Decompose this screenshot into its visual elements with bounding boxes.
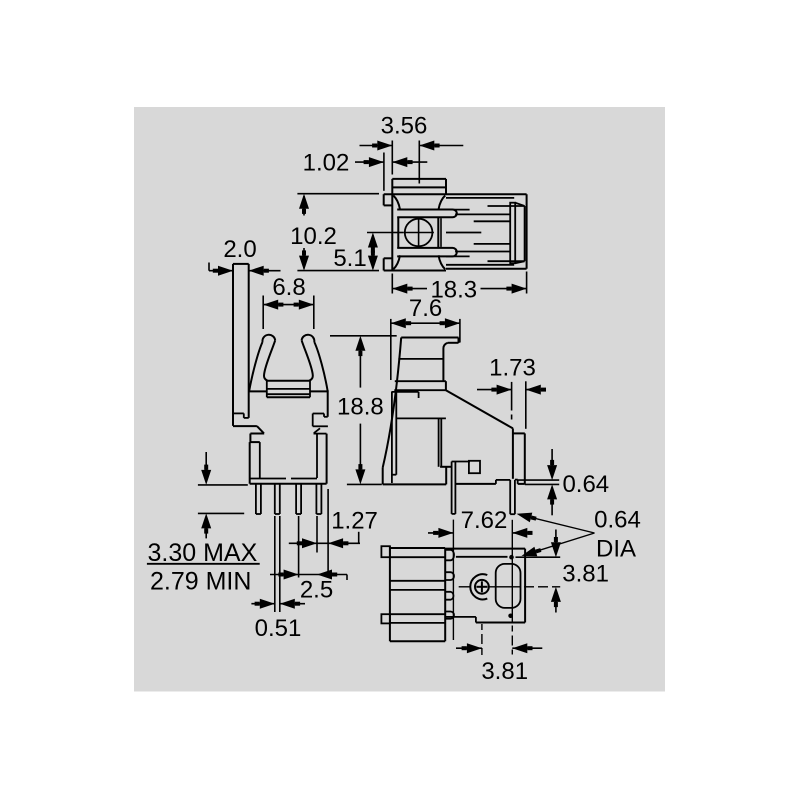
svg-text:1.27: 1.27 (331, 507, 378, 534)
dim 5.1 reference line (367, 232, 394, 234)
dim 7.6 line and arrows (391, 322, 460, 324)
svg-text:3.30 MAX: 3.30 MAX (148, 539, 258, 567)
svg-text:5.1: 5.1 (333, 245, 366, 272)
svg-text:2.79 MIN: 2.79 MIN (150, 567, 251, 595)
dim 7.62 line and arrows (428, 532, 453, 534)
gray panel background (134, 107, 665, 692)
dim 5.1 arrows (372, 235, 374, 250)
top view: clip body left block (392, 178, 446, 180)
top view: retaining strap upper (397, 209, 452, 211)
dim 3.56 line and arrows (360, 145, 393, 147)
extension lines for 1.27 and 2.5 (298, 516, 300, 578)
svg-text:2.0: 2.0 (223, 236, 256, 263)
dim 2.5 line and arrows (270, 574, 347, 576)
svg-text:10.2: 10.2 (290, 223, 337, 250)
dim 3.56 extension lines (391, 141, 393, 175)
bottom view: right body (445, 548, 525, 550)
front view: right foot (313, 413, 324, 415)
svg-text:2.5: 2.5 (300, 577, 333, 604)
svg-text:18.8: 18.8 (337, 394, 384, 421)
front view: bottom lines (250, 478, 286, 480)
side view: sloped top right (446, 390, 513, 428)
front view: left finger (249, 342, 262, 391)
svg-text:0.64: 0.64 (594, 507, 641, 534)
bottom view: left tabs (381, 546, 390, 557)
dim 10.2 arrows (303, 196, 305, 216)
bottom view: screw head (475, 580, 489, 594)
dim 10.2 reference lines (297, 193, 379, 195)
dim 1.73 extension lines (511, 382, 513, 411)
dim 2.0 line and arrows (208, 263, 210, 271)
svg-text:1.73: 1.73 (489, 355, 536, 382)
svg-text:3.81: 3.81 (562, 561, 609, 588)
dim 6.8 line and arrows (263, 304, 314, 306)
front view: legs (255, 484, 257, 514)
dim 3.30/2.79 arrows (205, 452, 207, 473)
top view: right body interior lines (446, 197, 514, 199)
top view: retaining strap lower (397, 247, 452, 249)
front view: right finger (314, 342, 327, 391)
bottom view: leg hole dots (509, 555, 514, 560)
top view: square pocket around hole (397, 217, 399, 248)
svg-text:3.56: 3.56 (381, 113, 428, 140)
bottom view: center lines (452, 520, 454, 640)
front view: left leaf (232, 264, 234, 426)
top view: left mount tab upper (383, 194, 385, 205)
top view: end cap (510, 203, 515, 264)
front view: body ledges (249, 390, 267, 392)
dim 7.6 extension lines (390, 319, 392, 380)
svg-text:7.62: 7.62 (461, 507, 508, 534)
side view: leg 1 (451, 462, 453, 514)
dim 18.3 line and arrows (392, 288, 427, 290)
front view: body right wall (327, 390, 329, 416)
bottom view: left column lines (390, 556, 445, 558)
svg-text:6.8: 6.8 (272, 274, 305, 301)
top view: right body outline (526, 194, 528, 269)
dim 1.73 line and arrows (477, 389, 512, 391)
dim 3.81 right arrows (555, 530, 557, 552)
svg-text:DIA: DIA (596, 535, 636, 562)
dim 18.8 arrows (359, 339, 361, 388)
svg-text:7.6: 7.6 (409, 295, 442, 322)
side view: interior line (396, 417, 446, 419)
fraction bar (147, 563, 260, 565)
bottom view: screw boss arc (470, 574, 487, 599)
top view: hole crosshair (403, 232, 434, 234)
front view: saddle band (267, 380, 310, 382)
dim 6.8 extension lines (262, 296, 264, 330)
dim 3.81 right reference line (516, 556, 561, 558)
side view: leg 2 (509, 480, 511, 514)
front view: inner wall right (326, 434, 328, 484)
side view: leaf thickness bar (391, 392, 393, 483)
front view: left leaf foot (233, 412, 244, 414)
dim 0.51 extension lines (274, 516, 276, 612)
dim 0.64 arrows (551, 449, 553, 469)
side view: bottom staircase (452, 461, 470, 463)
dim 1.27 line and arrows (289, 542, 360, 544)
bottom view: fuse window (496, 564, 521, 608)
top view: left mount tab lower (383, 258, 385, 270)
dim 18.8 reference lines (330, 335, 397, 337)
svg-text:3.81: 3.81 (481, 658, 528, 685)
top view: jaw curves lower (393, 255, 400, 269)
bottom view: pin bumps (445, 550, 454, 561)
dim 3.81 bottom line and arrows (456, 647, 482, 649)
front view: body left wall lower (249, 442, 251, 484)
top view: jaw curves upper (393, 196, 400, 210)
dim 0.64 reference lines (518, 479, 560, 481)
side view: right bottom step (515, 479, 518, 481)
svg-text:1.02: 1.02 (303, 150, 350, 177)
dim 3.30/2.79 reference lines (198, 484, 248, 486)
dim 3.81 bottom extension line (481, 624, 483, 630)
top view: mounting hole circle (405, 219, 433, 247)
leader 0.64 DIA (520, 515, 595, 533)
side view: inner right wall (438, 418, 440, 466)
dim 18.3 extension lines (391, 274, 393, 294)
side view: outline (401, 337, 458, 339)
bottom view: left column (389, 546, 391, 641)
svg-text:0.51: 0.51 (255, 615, 302, 642)
dim 1.02 line and arrows (355, 161, 384, 163)
bottom view: horizontal center line (459, 586, 470, 588)
dim 1.02 extension line (383, 153, 385, 191)
dim 0.51 line and arrows (251, 603, 274, 605)
side view: inner ledge (391, 391, 418, 393)
svg-text:0.64: 0.64 (562, 471, 609, 498)
side view: band lines (398, 358, 443, 360)
